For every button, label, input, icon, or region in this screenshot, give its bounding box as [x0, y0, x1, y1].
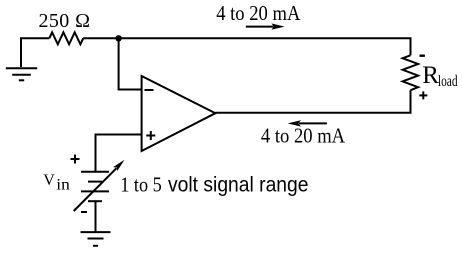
svg-text:in: in [56, 177, 69, 194]
label "-" (Vin negative terminal) [81, 211, 87, 213]
ground GND2 (below Vin) [81, 232, 111, 246]
wire: op-amp output to Rload bottom (return rail) [215, 90, 410, 113]
label "+" (Rload bottom polarity) [419, 91, 427, 99]
svg-text:1 to 5: 1 to 5 [120, 172, 162, 196]
wire: battery bottom to ground GND2 [95, 201, 97, 232]
svg-text:4 to 20 mA: 4 to 20 mA [261, 123, 346, 147]
svg-text:load: load [438, 73, 458, 90]
svg-text:250 Ω: 250 Ω [39, 10, 91, 32]
svg-text:R: R [422, 62, 439, 89]
resistor Rload (vertical zigzag) [403, 55, 419, 90]
label Rload [422, 62, 457, 90]
source Vin: variable battery symbol [81, 172, 109, 201]
variable-source diagonal arrow over battery [74, 160, 125, 211]
ground GND1 (top-left) [6, 68, 37, 80]
node A: junction dot at inverting-input tap [115, 35, 121, 41]
svg-text:V: V [43, 172, 55, 189]
resistor R1 (250 ohm, horizontal zigzag) [49, 32, 83, 44]
current arrow (top, pointing right) [246, 23, 285, 29]
svg-text:4 to 20 mA: 4 to 20 mA [216, 1, 301, 25]
wire: junction down to op-amp inverting input [119, 38, 142, 89]
wire: left lead from ground to resistor R1 [21, 38, 49, 67]
wire: top rail from resistor R1 to Rload top [83, 38, 410, 55]
label "-" (Rload top polarity) [420, 55, 425, 57]
wire: op-amp noninverting input to Vin source [96, 135, 142, 172]
current arrow (return, pointing left) [288, 120, 327, 126]
op-amp U1 [142, 76, 216, 151]
svg-text:volt signal range: volt signal range [168, 173, 309, 196]
label "+" (Vin positive terminal) [71, 155, 80, 164]
label Vin [43, 172, 70, 194]
